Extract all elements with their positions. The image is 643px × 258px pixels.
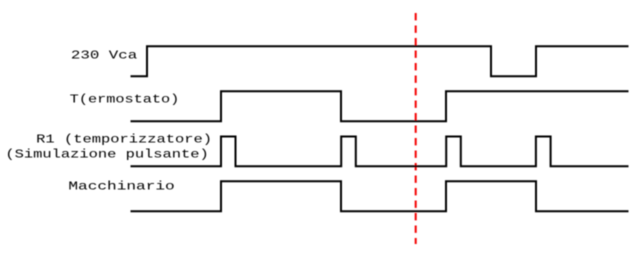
svg-text:T(ermostato): T(ermostato): [70, 92, 180, 106]
svg-text:Macchinario: Macchinario: [68, 179, 174, 193]
node T0 (red dashed time cursor): [415, 13, 417, 244]
wire R1 temporizzatore trace: [131, 137, 629, 167]
wire T(ermostato) trace: [131, 91, 629, 121]
wire 230 Vca trace: [131, 46, 629, 76]
svg-text:(Simulazione pulsante): (Simulazione pulsante): [5, 148, 208, 162]
svg-text:230 Vca: 230 Vca: [71, 49, 137, 63]
svg-text:R1 (temporizzatore): R1 (temporizzatore): [36, 133, 212, 147]
wire Macchinario trace: [131, 181, 629, 211]
